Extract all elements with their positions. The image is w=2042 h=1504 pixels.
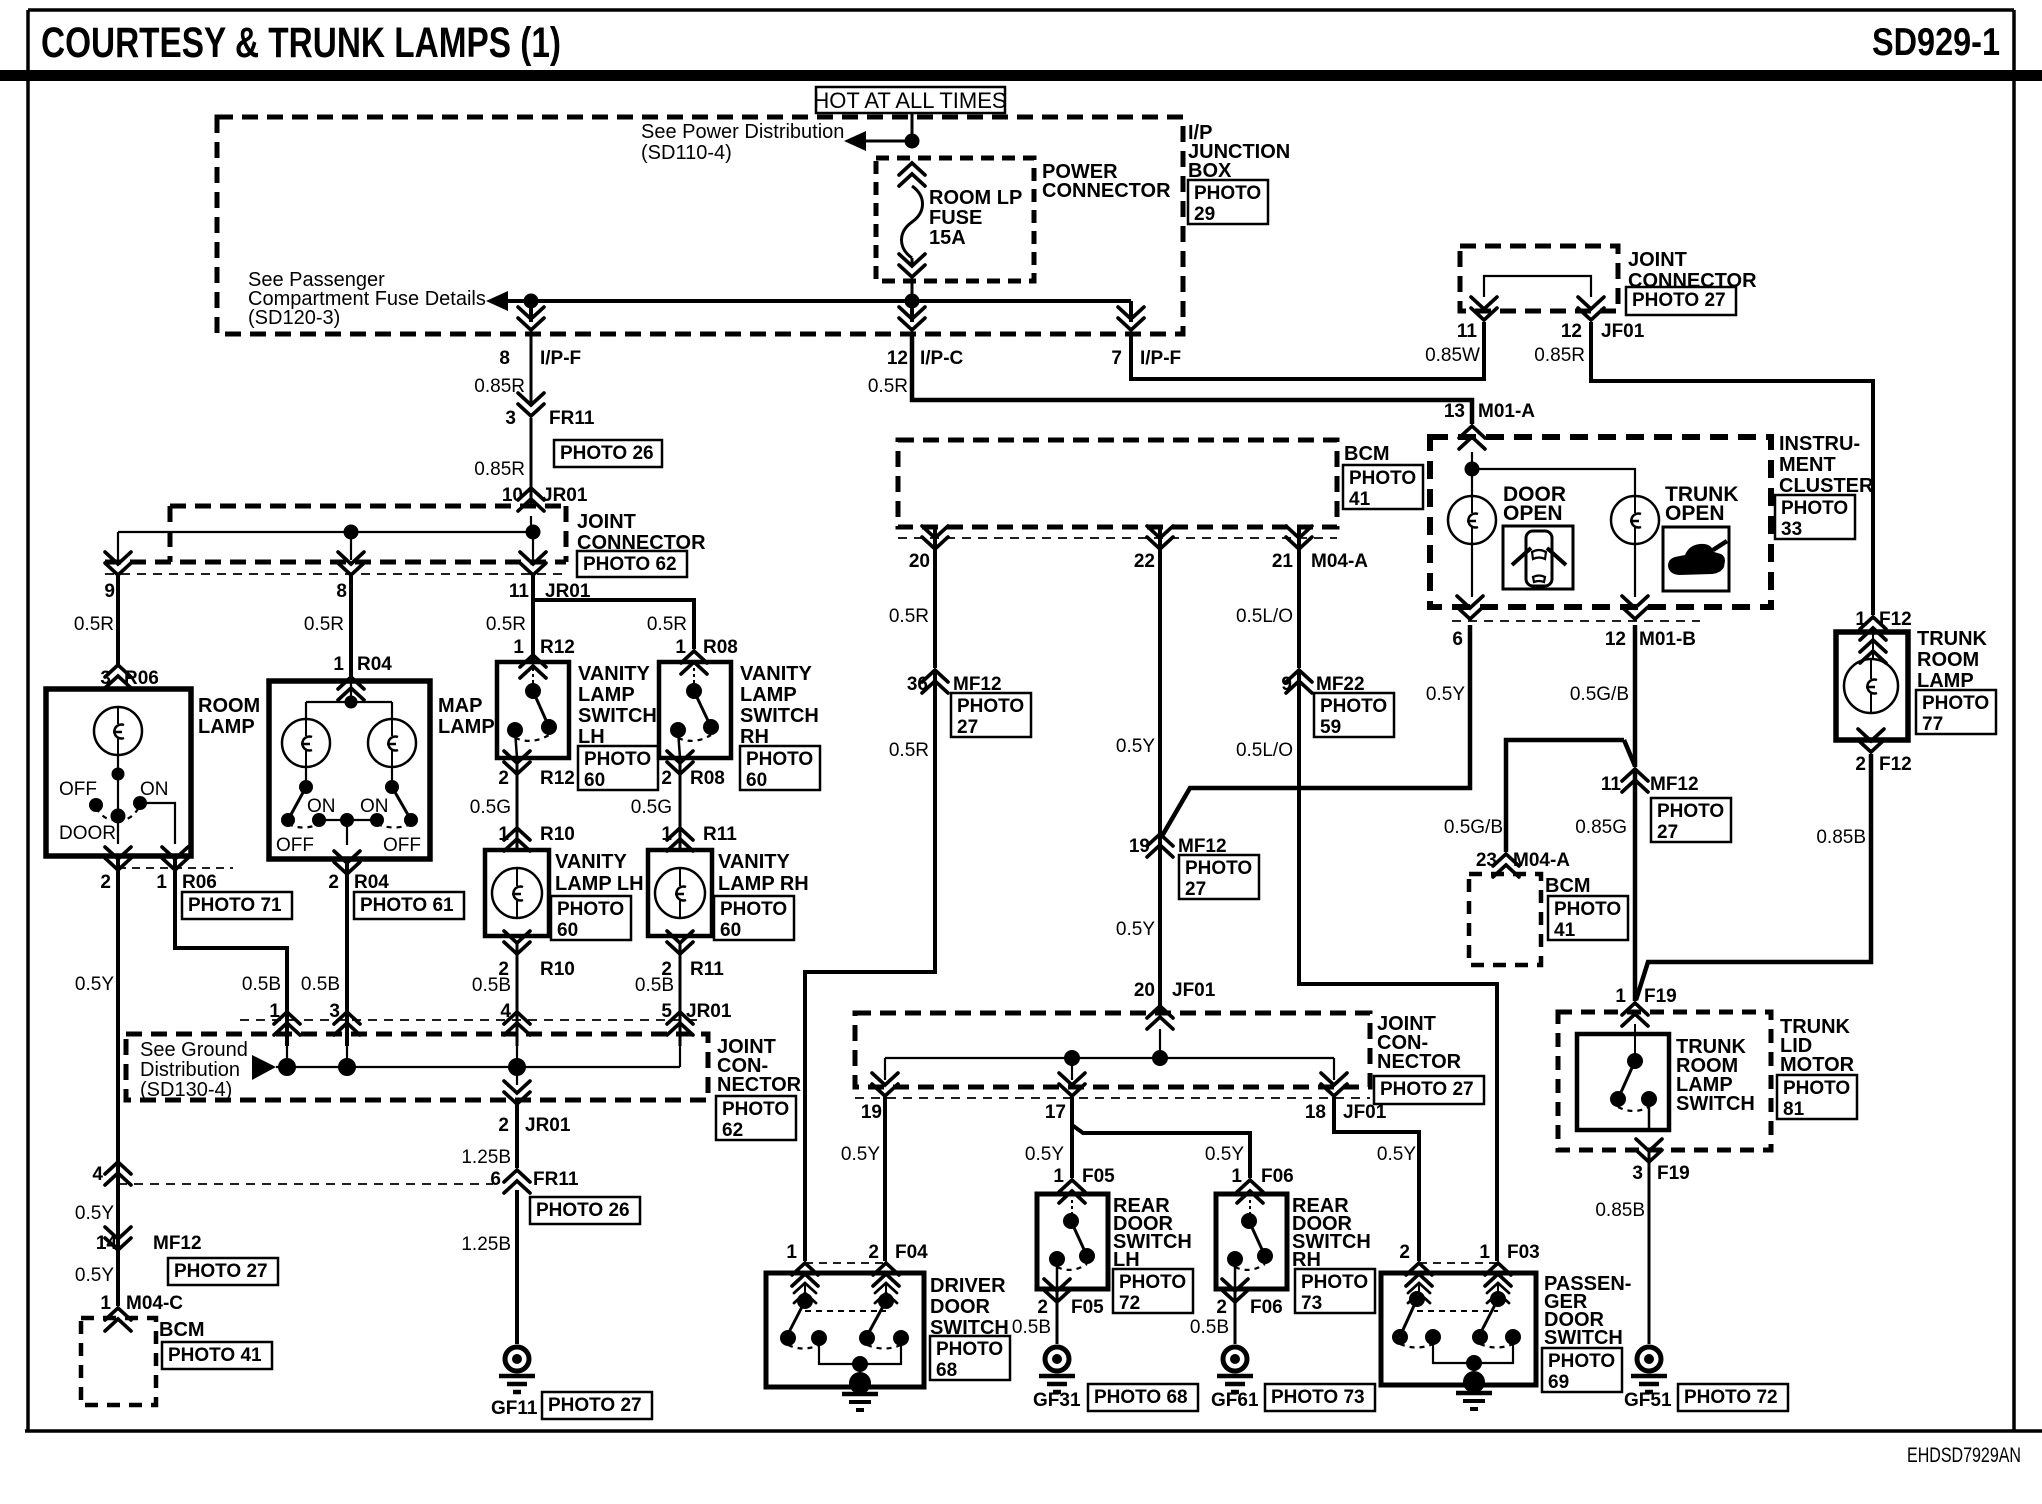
connector MF12 pin 11 [1622,769,1648,792]
svg-text:PHOTO 26: PHOTO 26 [560,443,654,464]
PHOTO 27 box jf01 bottom [1374,1076,1484,1104]
jf01 bus dot 20 [1152,1050,1168,1066]
svg-text:HOT AT ALL TIMES: HOT AT ALL TIMES [813,88,1006,113]
wire JF01-12 to trunk lamp corner [1591,322,1873,615]
lamp VANITY LAMP LH [492,868,542,918]
svg-text:R08: R08 [703,637,738,658]
instrument cluster outline [1430,437,1771,607]
svg-text:I/P-F: I/P-F [1140,348,1181,369]
connector M04-A pin 20 [922,526,948,549]
svg-text:GF61: GF61 [1211,1390,1259,1411]
svg-text:I/P-F: I/P-F [540,348,581,369]
wire R08-2 to R11-1 [679,764,682,850]
connector JF01 pin 12 [1578,297,1604,320]
svg-text:R06: R06 [124,668,159,689]
connector M01-B pin 6 [1457,596,1483,619]
wire jr01 pin11 drop [532,532,534,560]
connector JF01 pin 11 [1471,297,1497,320]
thin dashed line below jr01 [105,573,566,575]
ground bus dot 4 [508,1058,526,1076]
room lamp switch contacts [89,796,175,844]
wire cluster branch to trunk lamp [1472,469,1635,495]
connector JF01 pin 17 [1059,1073,1085,1096]
PHOTO 68 box gf31 [1088,1384,1198,1411]
svg-text:8: 8 [499,348,510,369]
svg-text:M01-B: M01-B [1639,629,1696,650]
svg-text:1: 1 [498,824,509,845]
svg-text:6: 6 [1452,629,1463,650]
thin dashed above jr01 bottom [240,1019,700,1021]
svg-text:0.5Y: 0.5Y [1377,1144,1416,1165]
svg-text:PHOTO 62: PHOTO 62 [583,554,677,575]
svg-text:R12: R12 [540,637,575,658]
svg-text:R10: R10 [540,824,575,845]
svg-text:PHOTO 27: PHOTO 27 [548,1395,642,1416]
svg-text:PHOTO 27: PHOTO 27 [1632,290,1726,311]
svg-text:4: 4 [92,1164,103,1185]
svg-text:PHOTO 71: PHOTO 71 [188,895,282,916]
svg-text:0.5G/B: 0.5G/B [1444,817,1503,838]
PHOTO 26 box top [554,440,662,467]
svg-text:SD929-1: SD929-1 [1872,21,2000,64]
svg-text:11: 11 [509,581,530,602]
wire branch to M04A-23 [1506,740,1624,852]
svg-text:0.5G: 0.5G [470,797,511,818]
svg-text:2: 2 [1855,754,1866,775]
svg-text:3: 3 [100,668,111,689]
wire F06-2 to GF61 [1234,1290,1237,1344]
joint connector 62 right edge [564,506,569,562]
trunk open icon [1663,527,1729,591]
jf01-18 drop [1333,1058,1335,1080]
thin dashed below jf01 [855,1097,1370,1099]
svg-text:11: 11 [1457,321,1478,342]
svg-text:2: 2 [498,1115,509,1136]
svg-text:0.5R: 0.5R [304,614,344,635]
svg-text:0.5B: 0.5B [301,974,340,995]
svg-text:10: 10 [502,485,523,506]
svg-text:12: 12 [887,348,908,369]
wire M04A-21 to MF22-9 [1297,527,1301,668]
wire R06-1 to JR01-1 [175,858,287,1046]
svg-text:1: 1 [100,1293,111,1314]
connector JR01 pin 1 bottom [274,1012,300,1035]
svg-text:0.5B: 0.5B [635,975,674,996]
PHOTO 60 box r12 [578,746,658,791]
svg-text:R12: R12 [540,768,575,789]
room lamp inner wire [117,755,119,816]
svg-text:1: 1 [1479,1242,1490,1263]
PHOTO 41 box right [1548,896,1628,941]
wire branch to R08 [535,600,694,649]
lamp ROOM LAMP bulb [94,707,142,755]
connector M04-A pin 22 [1147,526,1173,549]
svg-text:0.5L/O: 0.5L/O [1236,740,1293,761]
wire JR01-8 to R04 [349,576,353,681]
lamp TRUNK ROOM LAMP [1844,659,1898,713]
svg-text:JF01: JF01 [1172,980,1216,1001]
svg-text:1: 1 [156,872,167,893]
trunk lamp inner entry [1860,640,1886,663]
svg-text:0.5Y: 0.5Y [1116,736,1155,757]
wire F05-2 to GF31 [1056,1290,1059,1344]
PHOTO 77 box [1916,690,1996,735]
F06 exit pin 2 [1222,1279,1248,1302]
connector JR01 pin 3 bottom [334,1012,360,1035]
svg-text:17: 17 [1045,1102,1066,1123]
svg-text:0.85R: 0.85R [1534,345,1585,366]
PHOTO 73 box f06 [1295,1269,1375,1314]
connector F04 pin 1 [792,1263,818,1286]
connector JR01 pin 11 [520,552,546,575]
junction dot power feed [905,134,920,149]
svg-text:0.5R: 0.5R [868,376,908,397]
passenger door switch box [1381,1273,1536,1385]
PHOTO 61 box [354,892,464,919]
connector R08 pin 1 [681,651,707,674]
wire JR01-11 to R12 [531,576,535,662]
svg-text:PHOTO 68: PHOTO 68 [1094,1387,1188,1408]
I/P junction box outline [217,117,1183,334]
svg-text:MF12: MF12 [1650,774,1699,795]
svg-text:GF11: GF11 [491,1398,538,1419]
svg-text:DOOR: DOOR [59,823,116,844]
svg-text:PHOTO 73: PHOTO 73 [1271,1387,1365,1408]
svg-text:0.5R: 0.5R [486,614,526,635]
svg-text:21: 21 [1272,551,1294,572]
wire I/P-F8 drop [529,301,533,322]
PHOTO 60 box r10 [551,896,631,941]
svg-text:JR01: JR01 [686,1001,732,1022]
map lamp switches [281,767,418,845]
svg-text:FR11: FR11 [533,1169,579,1190]
svg-text:0.5L/O: 0.5L/O [1236,606,1293,627]
map lamp bulb left [282,719,330,767]
driver door switch box [766,1273,924,1387]
joint connector 62 top edge [170,504,566,509]
R06 exit pin 1 [162,847,188,870]
svg-text:1: 1 [1053,1166,1064,1187]
map lamp top bus [306,701,392,703]
wire M01B-12 to MF12-11 [1633,625,1638,767]
wire MF12-19 to JF01-20 [1158,836,1162,1012]
connector JF01 pin 18 [1321,1073,1347,1096]
F05 exit pin 2 [1044,1279,1070,1302]
PHOTO 27 box mf12-19 [1179,855,1259,900]
svg-text:1: 1 [786,1242,797,1263]
svg-text:1: 1 [661,824,672,845]
connector pin 8 I/P-F [518,307,544,330]
svg-text:19: 19 [1129,836,1150,857]
wire door lamp down [1471,544,1473,597]
svg-text:GF31: GF31 [1033,1390,1081,1411]
svg-text:ROOMLAMP: ROOMLAMP [198,695,260,738]
svg-text:23: 23 [1476,850,1497,871]
fuse ROOM LP FUSE 15A [899,163,925,277]
svg-text:20: 20 [1134,980,1155,1001]
svg-text:11: 11 [1601,774,1622,795]
svg-text:1.25B: 1.25B [461,1147,511,1168]
svg-text:0.5Y: 0.5Y [841,1144,880,1165]
PHOTO 27 box jf01 top [1626,287,1736,315]
svg-text:36: 36 [907,674,928,695]
vanity lamp switch LH box [497,662,569,758]
wire M04A-22 to MF12-19 [1158,527,1162,836]
indicator lamp TRUNK OPEN [1611,496,1659,544]
PHOTO 27 box gf11 [542,1392,652,1419]
wire JF01-18 to F03-2 [1334,1097,1419,1261]
svg-text:PHOTO 61: PHOTO 61 [360,895,454,916]
JF01 internal bus [1484,276,1591,297]
svg-text:8: 8 [336,581,347,602]
arrowhead See Passenger [486,291,508,311]
jr01-2 drop [516,1067,518,1085]
wire F19-3 to GF51 [1648,1150,1651,1344]
connector FR11 pin 3 [518,393,544,416]
PHOTO 72 box gf51 [1678,1384,1788,1411]
wire MF12-36 to F04-1 [805,672,935,1261]
PHOTO 60 box r08 [740,746,820,791]
vanity lamp switch RH box [659,662,731,758]
connector JR01 pin 9 [105,552,131,575]
junction dot at I/P-F8 [524,294,539,309]
wire I/P-F8 to FR11 [530,332,533,404]
svg-text:PHOTO 41: PHOTO 41 [168,1345,262,1366]
wire R11-2 to JR01-5 [679,944,682,1046]
wire M04A-20 to MF12-36 [933,527,937,668]
diag join mf12-11 [1624,740,1635,766]
svg-text:9: 9 [104,581,115,602]
HOT AT ALL TIMES box [813,87,1006,113]
svg-text:PHOTO 26: PHOTO 26 [536,1200,630,1221]
svg-text:9: 9 [1281,674,1292,695]
svg-text:OFF: OFF [383,835,421,856]
ground bus dot 1 [278,1058,296,1076]
connector M01-B pin 12 [1622,596,1648,619]
jf01-19 drop [884,1058,886,1080]
svg-text:22: 22 [1134,551,1155,572]
dashed between F03 pins [1419,1262,1498,1264]
ground bus dot 3 [338,1058,356,1076]
vanity lamp LH box [485,850,549,936]
R12 exit pin 2 [504,751,530,774]
svg-text:F06: F06 [1250,1297,1283,1318]
svg-text:14: 14 [96,1233,118,1254]
wire branch to F06-1 [1072,1125,1250,1178]
svg-text:1.25B: 1.25B [461,1234,511,1255]
R08 exit pin 2 [667,751,693,774]
joint connector JF01 top outline [1460,246,1618,311]
PHOTO 71 box [182,892,292,919]
svg-text:12: 12 [1605,629,1626,650]
connector FR11 pin 6 [504,1170,530,1193]
PHOTO 69 box f03 [1542,1348,1622,1393]
ground GF11 [499,1347,535,1392]
map lamp left drop [305,702,307,719]
map lamp right drop [391,702,393,719]
ground GF51 [1631,1347,1667,1392]
wire I/P-F7 to JF01 corner [1131,322,1484,379]
svg-text:2: 2 [661,768,672,789]
R11 exit pin 2 [667,931,693,954]
svg-text:0.5Y: 0.5Y [1025,1144,1064,1165]
PHOTO 27 box mf12-14 [168,1258,278,1285]
svg-text:ON: ON [140,779,169,800]
wire R10-2 to JR01-4 [516,944,519,1046]
svg-text:ON: ON [307,796,336,817]
connector F19 pin 3 [1636,1139,1662,1162]
bus wire see-passenger to I/P-F7 [500,299,1131,303]
svg-text:0.5Y: 0.5Y [75,974,114,995]
connector JF01 pin 19 [872,1073,898,1096]
svg-text:F19: F19 [1657,1163,1690,1184]
connector F06 pin 1 [1237,1180,1263,1203]
svg-text:0.5B: 0.5B [472,975,511,996]
connector M04-A pin 21 [1286,526,1312,549]
BCM left outline [81,1318,156,1405]
wire jr01 pin9 drop [117,532,119,560]
R12 switch internals [507,668,557,758]
svg-text:F12: F12 [1879,609,1912,630]
connector F05 pin 1 [1059,1180,1085,1203]
PHOTO 81 box [1777,1075,1857,1120]
dashed between F04 pins [805,1262,886,1264]
wire pin4 to MF12-14 [116,1150,120,1250]
svg-text:BCM: BCM [159,1319,205,1341]
svg-text:2: 2 [1037,1297,1048,1318]
jr01-4 stub [516,1046,518,1067]
connector JR01 pin 4 bottom [504,1012,530,1035]
R04 exit pin 2 [334,851,360,874]
svg-text:ON: ON [360,796,389,817]
connector R06 pin 3 [105,665,131,688]
svg-text:0.85R: 0.85R [474,459,525,480]
connector F03 pin 1 [1485,1263,1511,1286]
F04 switch internals [780,1285,909,1410]
svg-text:PHOTO 72: PHOTO 72 [1684,1387,1778,1408]
svg-text:1: 1 [1231,1166,1242,1187]
svg-text:3: 3 [505,408,516,429]
connector M04-C pin 1 [105,1308,131,1331]
svg-text:F05: F05 [1082,1166,1115,1187]
F06 switch internals [1227,1200,1273,1287]
wire jr01 pin8 drop [350,532,352,560]
svg-text:0.5R: 0.5R [647,614,687,635]
F03 switch internals [1392,1285,1521,1409]
svg-text:0.5R: 0.5R [889,740,929,761]
BCM top outline [898,440,1337,527]
jr01-10 into bus [530,516,532,532]
connector R04 pin 1 [338,677,364,700]
cluster bottom thin dashed [1452,620,1700,622]
map lamp bulb right [368,719,416,767]
wire f12 inside top [1872,634,1874,660]
wire I/P-F7 drop [1129,301,1133,322]
svg-text:6: 6 [490,1169,501,1190]
svg-text:COURTESY & TRUNK LAMPS (1): COURTESY & TRUNK LAMPS (1) [41,19,561,67]
wire FR11 to JR01-10 [530,418,533,506]
connector JR01 pin 8 [338,552,364,575]
wire from HOT AT ALL TIMES down [911,113,914,141]
svg-text:BCM: BCM [1344,443,1390,465]
map lamp R04 box [269,681,430,859]
junction dot jr01 bus right [526,525,541,540]
svg-text:1: 1 [1855,609,1866,630]
svg-text:MF12: MF12 [153,1233,202,1254]
svg-text:R04: R04 [357,654,392,675]
connector F19 pin 1 [1622,1003,1648,1026]
svg-text:0.5G/B: 0.5G/B [1570,684,1629,705]
svg-text:M04-A: M04-A [1513,850,1570,871]
junction dot at I/P-C12 [905,294,920,309]
svg-text:0.5Y: 0.5Y [75,1203,114,1224]
connector MF12 pin 14 [105,1227,131,1250]
connector MF12 pin 36 [922,670,948,693]
PHOTO 62 box bottom [716,1096,796,1141]
svg-text:19: 19 [861,1102,882,1123]
jf01-17 drop [1071,1058,1073,1080]
svg-text:R08: R08 [690,768,725,789]
F03 inner pins [1408,1283,1430,1303]
connector pin 4 left [105,1162,131,1185]
wire JF01-17 to F05-1 [1070,1097,1074,1178]
wire I/P-C to M01-A-13 [912,332,1472,424]
joint connector ground outline [126,1034,708,1100]
svg-text:DOOROPEN: DOOROPEN [1503,483,1566,525]
ground triangle arrow [252,1055,276,1080]
trunk switch internals [1610,1024,1657,1130]
svg-text:F12: F12 [1879,754,1912,775]
PHOTO 41 box left [162,1342,272,1369]
connector R12 pin 1 [520,655,546,678]
connector R10 pin 1 [504,828,530,851]
svg-text:0.5B: 0.5B [242,974,281,995]
PHOTO 68 box f04 [930,1336,1010,1381]
svg-text:JR01: JR01 [542,485,588,506]
svg-text:0.5G: 0.5G [631,797,672,818]
junction dot jr01 bus mid [344,525,359,540]
jr01 internal bus [118,531,533,533]
svg-text:F06: F06 [1261,1166,1294,1187]
map lamp feed [350,681,352,702]
svg-text:1: 1 [513,637,524,658]
connector F03 pin 2 [1406,1263,1432,1286]
svg-text:13: 13 [1444,401,1465,422]
room lamp R06 box [46,689,191,856]
connector JF01 pin 20 [1147,1006,1173,1029]
jr01-1 stub [286,1046,288,1067]
jf01-20 stub [1159,1029,1161,1058]
svg-text:7: 7 [1111,348,1122,369]
svg-text:M01-A: M01-A [1478,401,1535,422]
svg-text:0.85B: 0.85B [1595,1200,1645,1221]
PHOTO 29 box [1188,180,1268,225]
connector pin 7 I/P-F [1118,307,1144,330]
connector M04-A pin 23 [1493,854,1519,877]
svg-text:See GroundDistribution(SD130-4: See GroundDistribution(SD130-4) [140,1039,248,1101]
svg-text:M04-C: M04-C [126,1293,183,1314]
svg-text:2: 2 [328,872,339,893]
R10 exit pin 2 [504,931,530,954]
svg-text:EHDSD7929AN: EHDSD7929AN [1907,1444,2021,1467]
svg-text:0.85G: 0.85G [1575,817,1627,838]
svg-text:JF01: JF01 [1601,321,1645,342]
wire MF12-11 to F19-1 [1633,771,1638,1001]
connector JR01 pin 2 [504,1081,530,1104]
svg-text:OFF: OFF [59,779,97,800]
svg-text:F04: F04 [895,1242,928,1263]
PHOTO 33 box [1775,495,1855,540]
